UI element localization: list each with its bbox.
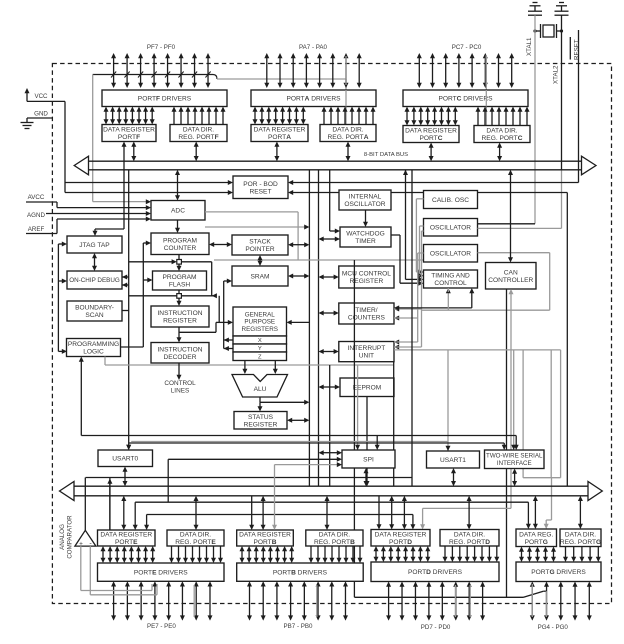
wire PROGRAMMING LOGIC to PROGRAM FLASH xyxy=(121,346,144,348)
svg-text:ANALOG: ANALOG xyxy=(59,524,66,550)
gray line through PORTC drivers xyxy=(485,55,487,126)
JTAG TAP to ON-CHIP DEBUG double arrow xyxy=(94,257,96,267)
svg-text:DATA REGISTER: DATA REGISTER xyxy=(405,128,457,135)
box PORTE DRIVERS xyxy=(98,563,225,581)
X Y Z pointer line to SRAM xyxy=(223,281,225,349)
SPI left connections xyxy=(323,452,339,454)
svg-text:PE7 - PE0: PE7 - PE0 xyxy=(147,623,176,630)
gray oscillator1 to XTAL2 xyxy=(478,227,562,229)
svg-text:ON-CHIP DEBUG: ON-CHIP DEBUG xyxy=(69,277,120,284)
EEPROM to riser double arrow xyxy=(323,386,337,388)
svg-text:SCAN: SCAN xyxy=(85,312,104,319)
wire CAN to port G xyxy=(506,289,508,597)
svg-text:CALIB. OSC: CALIB. OSC xyxy=(432,197,469,204)
XTAL1 line (gray) xyxy=(534,15,536,224)
svg-text:PROGRAM: PROGRAM xyxy=(162,274,196,281)
Y register xyxy=(233,344,287,352)
PORTD register bundle xyxy=(375,550,377,558)
svg-text:OSCILLATOR: OSCILLATOR xyxy=(430,251,471,258)
svg-text:REG. PORTB: REG. PORTB xyxy=(314,539,355,546)
box CAN CONTROLLER xyxy=(486,263,537,290)
box DATA DIR REG PORTC xyxy=(474,126,530,143)
box DATA REGISTER PORTD xyxy=(371,530,430,547)
ALU xyxy=(232,375,288,398)
node square 1 xyxy=(178,255,180,260)
analog comparator xyxy=(75,530,96,546)
XTAL1 capacitor and ground xyxy=(533,2,538,4)
box OSCILLATOR 2 xyxy=(424,245,478,263)
svg-text:PF7 - PF0: PF7 - PF0 xyxy=(147,44,176,51)
svg-text:PORTF: PORTF xyxy=(118,134,140,141)
svg-text:PORTF DRIVERS: PORTF DRIVERS xyxy=(138,96,192,103)
svg-text:Z: Z xyxy=(258,354,262,360)
wire right to POR-BOD lower xyxy=(288,190,293,195)
stack pointer to SRAM double arrow xyxy=(259,259,261,262)
Z register xyxy=(233,352,287,361)
svg-text:DATA DIR.: DATA DIR. xyxy=(565,531,596,538)
wires ON-CHIP DEBUG to riser xyxy=(122,275,127,280)
box PORTG DRIVERS xyxy=(516,562,601,582)
left service vertical wire xyxy=(57,244,59,351)
svg-text:INSTRUCTION: INSTRUCTION xyxy=(157,346,202,353)
box SRAM xyxy=(232,266,288,286)
PORTD data dir bundle xyxy=(444,546,446,558)
PORTC pin arrows xyxy=(418,57,420,84)
gray drop to SPI xyxy=(357,365,359,450)
RESET pin line xyxy=(578,30,580,183)
svg-text:DATA REG.: DATA REG. xyxy=(519,531,553,538)
box CALIB OSC xyxy=(424,191,478,209)
wire to SPI top xyxy=(376,436,378,447)
svg-text:AVCC: AVCC xyxy=(28,194,45,201)
box INSTRUCTION DECODER xyxy=(151,343,209,364)
svg-text:PORTB: PORTB xyxy=(254,539,277,546)
svg-text:POINTER: POINTER xyxy=(245,246,275,253)
svg-text:OSCILLATOR: OSCILLATOR xyxy=(430,225,471,232)
box DATA REG PORTG xyxy=(516,529,557,547)
internal oscillator to watchdog arrow xyxy=(365,210,367,223)
stack pointer to riser double arrow xyxy=(292,244,305,246)
wire VCC to POR-BOD xyxy=(27,100,65,102)
PORTE register-bus arrows xyxy=(123,500,125,526)
wire port routing 1 xyxy=(135,501,528,503)
box INSTRUCTION REGISTER xyxy=(151,306,209,327)
box DATA DIR REG PORTB xyxy=(306,530,363,546)
wire bus to watchdog xyxy=(329,170,331,231)
box PORTA DRIVERS xyxy=(251,90,376,107)
svg-text:SPI: SPI xyxy=(363,456,374,463)
box POR-BOD RESET xyxy=(233,176,288,199)
gray to timing bottom arrow xyxy=(447,292,449,310)
svg-text:PROGRAM: PROGRAM xyxy=(163,237,197,244)
PORTG data dir bundle xyxy=(565,547,567,559)
svg-text:FLASH: FLASH xyxy=(169,282,190,289)
wire node2 left xyxy=(129,295,177,297)
svg-text:REG. PORTE: REG. PORTE xyxy=(175,539,216,546)
wire analog mux line to PORTF pins xyxy=(93,74,213,76)
svg-text:DATA REGISTER: DATA REGISTER xyxy=(375,531,427,538)
box MCU CONTROL REGISTER xyxy=(339,266,394,288)
box OSCILLATOR 1 xyxy=(424,219,478,237)
box PROGRAM COUNTER xyxy=(151,233,209,255)
EEPROM to bottom bus xyxy=(366,397,368,483)
svg-text:COMPARATOR: COMPARATOR xyxy=(67,515,74,559)
svg-text:UNIT: UNIT xyxy=(359,353,374,360)
wire bus down to timing xyxy=(405,170,407,280)
wire USART0 line to two-wire top xyxy=(129,442,505,444)
svg-text:REG. PORTF: REG. PORTF xyxy=(178,134,218,141)
box TIMING AND CONTROL xyxy=(424,270,478,288)
PORTB register-bus arrows xyxy=(262,500,264,526)
svg-text:STACK: STACK xyxy=(249,239,271,246)
svg-text:PA7 - PA0: PA7 - PA0 xyxy=(299,44,328,51)
box DATA REGISTER PORTA xyxy=(251,125,308,142)
svg-text:TWO-WIRE SERIAL: TWO-WIRE SERIAL xyxy=(486,453,543,460)
PORTC data dir bundle xyxy=(477,111,479,126)
svg-text:PORTG: PORTG xyxy=(525,539,548,546)
svg-text:ADC: ADC xyxy=(171,208,185,215)
svg-text:DATA REGISTER: DATA REGISTER xyxy=(100,532,152,539)
wire watchdog to timing xyxy=(391,234,400,236)
wire port routing 2 xyxy=(147,514,413,516)
gray oscillator2 to XTAL2 loop xyxy=(478,252,550,254)
box USART1 xyxy=(427,451,480,468)
top data bus xyxy=(89,160,582,162)
svg-text:8-BIT DATA BUS: 8-BIT DATA BUS xyxy=(364,152,408,158)
box GENERAL PURPOSE REGISTERS xyxy=(233,307,287,336)
VCC pin xyxy=(26,92,28,101)
bus riser 1 xyxy=(308,170,310,486)
wire programming line to two-wire top xyxy=(309,435,516,437)
svg-text:PORTG DRIVERS: PORTG DRIVERS xyxy=(531,569,586,576)
gray wire ADC to riser xyxy=(205,226,305,228)
PORTF data register bundle xyxy=(105,111,107,121)
PORTF data dir bundle xyxy=(173,111,175,125)
PORTE data dir bundle xyxy=(171,546,173,559)
svg-text:TIMING AND: TIMING AND xyxy=(431,273,470,280)
analog comparator output line xyxy=(86,477,413,479)
PORTG pin arrows xyxy=(531,586,533,617)
interrupt unit to riser double arrow xyxy=(323,351,335,353)
box ADC xyxy=(151,201,205,221)
svg-text:CONTROL: CONTROL xyxy=(434,280,467,287)
wire timing to timer/counters xyxy=(469,288,474,293)
svg-text:REGISTER: REGISTER xyxy=(244,421,278,428)
box TIMER/COUNTERS xyxy=(339,303,394,324)
wire VCC to POR-BOD xyxy=(65,182,229,184)
svg-text:DATA DIR.: DATA DIR. xyxy=(486,128,517,135)
chip boundary (dashed) xyxy=(52,64,611,604)
wire RESET to POR-BOD xyxy=(288,180,293,185)
box DATA DIR REG PORTF xyxy=(170,125,227,142)
box PORTD DRIVERS xyxy=(371,562,499,582)
svg-text:SRAM: SRAM xyxy=(250,273,269,280)
program counter to stack pointer double arrow xyxy=(213,244,228,246)
crystal xyxy=(543,25,554,37)
svg-text:XTAL1: XTAL1 xyxy=(526,37,533,56)
svg-text:PB7 - PB0: PB7 - PB0 xyxy=(284,623,313,630)
svg-text:DATA DIR.: DATA DIR. xyxy=(454,531,485,538)
svg-text:GND: GND xyxy=(34,111,48,118)
box PORTC DRIVERS xyxy=(403,90,528,107)
MCU control register to riser double arrow xyxy=(323,276,335,278)
watchdog to riser double arrow xyxy=(323,238,337,240)
port register to bus arrows xyxy=(133,146,135,158)
svg-text:INTERFACE: INTERFACE xyxy=(497,460,532,467)
box PORTF DRIVERS xyxy=(102,90,227,107)
bottom data bus xyxy=(74,485,588,487)
status register to riser double arrow xyxy=(291,419,305,421)
gray drop to USART1 xyxy=(447,350,449,451)
svg-text:XTAL2: XTAL2 xyxy=(553,65,560,84)
box PORTB DRIVERS xyxy=(237,563,364,581)
svg-text:LINES: LINES xyxy=(171,388,189,395)
svg-text:COUNTER: COUNTER xyxy=(164,245,197,252)
svg-text:CAN: CAN xyxy=(504,269,518,276)
PORTD pin arrows xyxy=(388,586,390,617)
node square 2 xyxy=(178,290,180,294)
ADC to program counter arrow xyxy=(177,220,179,229)
SRAM to riser double arrow xyxy=(292,275,305,277)
PORTG register-bus arrows xyxy=(534,500,536,525)
node2 to instruction register arrow xyxy=(178,298,180,302)
svg-text:REGISTERS: REGISTERS xyxy=(242,326,278,333)
svg-text:TIMER: TIMER xyxy=(355,238,376,245)
box DATA DIR REG PORTE xyxy=(167,530,224,546)
box EEPROM xyxy=(340,378,394,397)
gray peripheral line xyxy=(131,441,448,443)
gray wire ADC right to clock net xyxy=(205,211,298,213)
extra port D arrows xyxy=(391,500,393,526)
box DATA REGISTER PORTC xyxy=(403,126,459,143)
arrow into node 1 xyxy=(129,261,173,263)
svg-text:DATA DIR.: DATA DIR. xyxy=(180,532,211,539)
svg-text:PORTA DRIVERS: PORTA DRIVERS xyxy=(286,96,341,103)
gray drops right xyxy=(522,350,524,478)
wire vertical right side xyxy=(566,193,568,487)
svg-text:REGISTER: REGISTER xyxy=(163,318,197,325)
gray TOSC line xyxy=(353,260,355,597)
svg-text:PORTC: PORTC xyxy=(420,135,443,142)
svg-text:REG. PORTA: REG. PORTA xyxy=(328,134,369,141)
PORTB pin arrows xyxy=(249,585,251,616)
svg-text:DATA DIR.: DATA DIR. xyxy=(332,127,363,134)
oscillator1 to XTAL1 xyxy=(478,223,536,225)
svg-text:PORTE DRIVERS: PORTE DRIVERS xyxy=(134,570,188,577)
svg-text:CONTROL: CONTROL xyxy=(164,380,196,387)
svg-text:AGND: AGND xyxy=(27,212,45,219)
box JTAG TAP xyxy=(67,236,122,253)
bus to ADC double arrow xyxy=(177,174,179,197)
svg-text:LOGIC: LOGIC xyxy=(83,349,104,356)
comparator output wire xyxy=(84,478,86,531)
svg-text:PORTC DRIVERS: PORTC DRIVERS xyxy=(438,96,493,103)
box DATA DIR REG PORTA xyxy=(320,125,376,142)
gray oscillator outputs to timers xyxy=(422,230,424,232)
SPI to bus double arrow xyxy=(365,472,367,482)
svg-text:REG. PORTD: REG. PORTD xyxy=(449,539,490,546)
gray control line from PROGRAMMING LOGIC xyxy=(104,357,106,366)
svg-text:INSTRUCTION: INSTRUCTION xyxy=(157,310,202,317)
svg-text:BOUNDARY-: BOUNDARY- xyxy=(75,305,114,312)
XTAL2 line xyxy=(561,15,563,170)
node1 to flash arrow xyxy=(178,264,180,267)
svg-text:DATA REGISTER: DATA REGISTER xyxy=(254,127,306,134)
wire riser to USART0 top xyxy=(126,445,131,450)
PORTD register-bus arrows xyxy=(403,500,405,526)
box TWO-WIRE SERIAL INTERFACE xyxy=(485,450,545,469)
box DATA REGISTER PORTE xyxy=(98,530,156,546)
registers to ALU arrows xyxy=(244,361,246,371)
wire PROGRAMMING LOGIC up from serial bus xyxy=(80,361,82,436)
box DATA DIR REG PORTG xyxy=(560,529,601,547)
svg-text:AREF: AREF xyxy=(28,226,45,233)
two-wire to bus double arrow xyxy=(514,473,516,483)
gray oscillator1 to timing wire xyxy=(420,225,424,227)
box STACK POINTER xyxy=(232,235,288,255)
svg-text:DATA DIR.: DATA DIR. xyxy=(183,127,214,134)
ALU output to status register xyxy=(259,397,261,402)
X register xyxy=(233,336,287,344)
box INTERRUPT UNIT xyxy=(339,342,394,362)
wire serial region riser xyxy=(329,365,331,486)
PORTB data dir bundle xyxy=(310,546,312,559)
box WATCHDOG TIMER xyxy=(340,227,391,247)
box USART0 xyxy=(98,450,153,467)
gray ADC input from analog line xyxy=(146,199,151,204)
box SPI xyxy=(342,450,395,468)
timer/counters to riser double arrow xyxy=(323,312,335,314)
svg-text:STATUS: STATUS xyxy=(248,414,274,421)
svg-text:DATA REGISTER: DATA REGISTER xyxy=(239,532,291,539)
USART1 to bus double arrow xyxy=(453,472,455,482)
PORTE register bundle xyxy=(102,550,104,559)
svg-text:MCU CONTROL: MCU CONTROL xyxy=(342,271,391,278)
wire BOUNDARY-SCAN to riser xyxy=(122,310,129,312)
control lines arrow xyxy=(178,363,180,376)
wire to PROGRAM COUNTER left xyxy=(143,242,147,244)
svg-text:PURPOSE: PURPOSE xyxy=(244,319,275,326)
box BOUNDARY-SCAN xyxy=(67,301,122,321)
box PROGRAMMING LOGIC xyxy=(67,339,121,357)
interrupt unit to peripherals gray net xyxy=(394,349,561,351)
svg-text:TIMER/: TIMER/ xyxy=(355,307,378,314)
box STATUS REGISTER xyxy=(234,412,287,430)
TOSC wire to PORTG pins xyxy=(354,596,523,598)
CAN controller to port D wire xyxy=(509,289,514,294)
gray two-wire drop arrow xyxy=(511,445,516,450)
svg-text:COUNTERS: COUNTERS xyxy=(348,315,386,322)
svg-text:USART1: USART1 xyxy=(440,457,466,464)
box ON-CHIP DEBUG xyxy=(67,271,122,289)
PORTE pin arrows xyxy=(113,585,115,616)
bus to CAN controller double arrow xyxy=(510,174,512,259)
wire from port F register to JTAG TAP xyxy=(123,146,125,230)
PORTB register bundle xyxy=(241,550,243,559)
PORTG register bundle xyxy=(521,551,523,559)
PORTC data register bundle xyxy=(406,111,408,122)
svg-text:PORTA: PORTA xyxy=(268,134,291,141)
svg-text:CONTROLLER: CONTROLLER xyxy=(488,277,533,284)
box DATA DIR REG PORTD xyxy=(440,530,499,547)
ground symbol xyxy=(26,118,28,123)
svg-text:Y: Y xyxy=(258,346,262,352)
svg-text:WATCHDOG: WATCHDOG xyxy=(346,231,384,238)
box DATA REGISTER PORTB xyxy=(237,530,294,546)
gray CPU clock line xyxy=(214,259,424,261)
instruction register to decoder arrow xyxy=(178,327,180,339)
gray pin arrow overlays xyxy=(345,90,347,107)
box DATA REGISTER PORTF xyxy=(102,125,156,142)
left riser to USART0 xyxy=(128,170,130,446)
svg-text:PC7 - PC0: PC7 - PC0 xyxy=(452,44,482,51)
svg-text:PROGRAMMING: PROGRAMMING xyxy=(68,341,119,348)
svg-text:POR - BOD: POR - BOD xyxy=(243,181,278,188)
svg-text:X: X xyxy=(258,338,262,344)
svg-text:DATA DIR.: DATA DIR. xyxy=(319,532,350,539)
box INTERNAL OSCILLATOR xyxy=(339,190,391,210)
wire gray continuation to PORTA xyxy=(217,78,346,80)
USART0 to bus double arrow xyxy=(124,471,126,483)
bus riser 2 xyxy=(318,170,320,486)
box PROGRAM FLASH xyxy=(153,271,207,290)
PORTA pin arrows xyxy=(266,57,268,84)
svg-text:PORTB DRIVERS: PORTB DRIVERS xyxy=(273,570,328,577)
svg-text:RESET: RESET xyxy=(573,39,580,60)
svg-text:REG. PORTG: REG. PORTG xyxy=(560,539,601,546)
timer bottom wire xyxy=(393,362,395,487)
gray drop to two-wire xyxy=(513,350,515,446)
svg-text:PORTD DRIVERS: PORTD DRIVERS xyxy=(408,569,463,576)
svg-text:INTERNAL: INTERNAL xyxy=(349,194,382,201)
svg-text:PD7 - PD0: PD7 - PD0 xyxy=(421,624,451,631)
wire gray analog line down to ADC xyxy=(92,75,94,202)
gray calib osc to timing wire xyxy=(416,198,423,200)
port E comparator input xyxy=(109,482,111,531)
svg-text:GENERAL: GENERAL xyxy=(245,312,276,319)
svg-text:DECODER: DECODER xyxy=(164,354,197,361)
svg-text:DATA REGISTER: DATA REGISTER xyxy=(103,127,155,134)
svg-text:VCC: VCC xyxy=(34,93,48,100)
svg-text:INTERRUPT: INTERRUPT xyxy=(348,345,386,352)
svg-text:PG4 - PG0: PG4 - PG0 xyxy=(538,624,569,631)
XTAL2 capacitor and ground xyxy=(559,2,564,4)
svg-text:RESET: RESET xyxy=(250,188,272,195)
comparator gray inputs xyxy=(80,546,82,590)
PORTF pin arrows xyxy=(113,57,115,84)
extra port B arrows xyxy=(251,496,253,526)
PORTA data register bundle xyxy=(254,111,256,121)
svg-text:ALU: ALU xyxy=(254,386,267,393)
wire instruction register to general purpose registers xyxy=(179,331,216,333)
registers to riser arrow xyxy=(287,320,292,325)
svg-text:REG. PORTC: REG. PORTC xyxy=(482,135,523,142)
svg-text:JTAG TAP: JTAG TAP xyxy=(79,242,110,249)
svg-text:PORTD: PORTD xyxy=(389,539,412,546)
PORTA data dir bundle xyxy=(323,111,325,125)
flash feedback loop xyxy=(181,261,211,263)
svg-text:USART0: USART0 xyxy=(112,456,138,463)
svg-text:PORTE: PORTE xyxy=(115,539,138,546)
svg-text:OSCILLATOR: OSCILLATOR xyxy=(344,201,385,208)
